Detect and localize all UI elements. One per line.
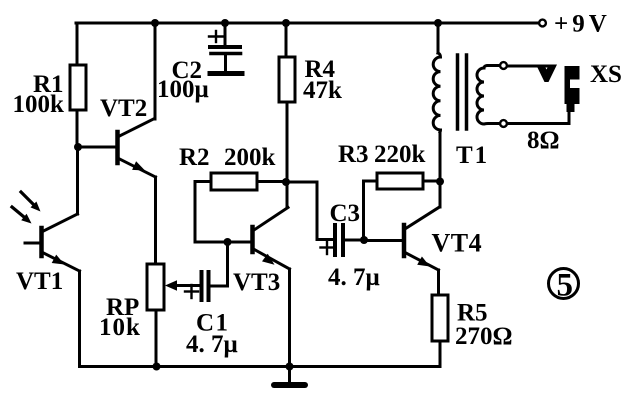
svg-text:270Ω: 270Ω [455, 323, 513, 350]
svg-text:R3: R3 [338, 141, 369, 168]
svg-text:VT3: VT3 [233, 269, 280, 296]
svg-text:200k: 200k [224, 144, 276, 171]
svg-text:220k: 220k [374, 141, 426, 168]
svg-text:100k: 100k [13, 91, 65, 118]
svg-text:4. 7μ: 4. 7μ [328, 264, 380, 291]
svg-text:VT2: VT2 [100, 95, 147, 122]
svg-text:R2: R2 [179, 144, 210, 171]
svg-text:C3: C3 [330, 200, 361, 227]
svg-text:5: 5 [557, 268, 574, 304]
svg-text:100μ: 100μ [157, 76, 209, 103]
svg-text:VT4: VT4 [432, 229, 483, 258]
svg-text:XS: XS [590, 61, 622, 88]
svg-text:T1: T1 [456, 142, 489, 169]
svg-text:10k: 10k [99, 314, 141, 341]
svg-text:+9V: +9V [554, 11, 611, 38]
svg-text:8Ω: 8Ω [527, 127, 560, 154]
svg-text:4. 7μ: 4. 7μ [186, 331, 238, 358]
svg-text:VT1: VT1 [16, 268, 63, 295]
svg-text:47k: 47k [303, 77, 342, 104]
